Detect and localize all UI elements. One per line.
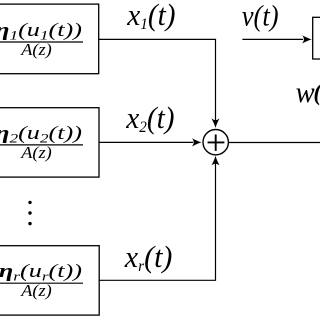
block G2 (eta_2/A)	[0, 108, 99, 177]
arrowhead down into summing node top	[211, 118, 219, 128]
svg-text:x2(t): x2(t)	[125, 102, 174, 137]
svg-text:xr(t): xr(t)	[124, 240, 173, 275]
fraction bar block 1	[0, 41, 83, 43]
output wire from summing node to right edge	[229, 142, 320, 144]
vertical ellipsis dots	[28, 201, 31, 204]
svg-text:v(t): v(t)	[242, 0, 279, 33]
value label denominator A(z) block 3	[20, 281, 52, 300]
wire xr: block Gr to summing node (right then up)	[99, 163, 215, 280]
block G1 (eta_1/A)	[0, 4, 99, 74]
node label x_1(t)	[126, 0, 175, 33]
svg-text:A(z): A(z)	[20, 143, 52, 162]
value label numerator eta_2(u_2(t))	[0, 122, 82, 145]
plus sign horizontal	[208, 141, 225, 143]
svg-text:(: (	[313, 80, 320, 106]
arrowhead right into summing node left	[192, 138, 202, 146]
plus sign vertical	[215, 135, 217, 151]
arrowhead up into summing node bottom	[211, 156, 219, 166]
value label numerator eta_r(u_r(t))	[0, 260, 82, 283]
arrowhead right into top-right block	[302, 35, 312, 43]
node label x_r(t)	[124, 240, 173, 275]
svg-text:A(z): A(z)	[20, 40, 52, 59]
wire x1: block G1 to summing node (right then down)	[99, 39, 216, 120]
svg-text:w: w	[296, 76, 315, 109]
wire x2: block G2 to summing node (straight right)	[99, 141, 193, 143]
wire v(t) into top-right block	[242, 38, 303, 40]
svg-text:A(z): A(z)	[20, 281, 52, 300]
block Gr (eta_r/A)	[0, 246, 99, 315]
node label w( (cut off)	[296, 76, 315, 109]
value label denominator A(z) block 1	[20, 40, 52, 59]
value label numerator eta_1(u_1(t))	[0, 19, 82, 42]
node label x_2(t)	[125, 102, 174, 137]
top-right block (cut off)	[313, 17, 320, 59]
svg-text:x1(t): x1(t)	[126, 0, 175, 33]
fraction bar block 3	[0, 282, 83, 284]
summing node circle	[203, 130, 228, 155]
node label v(t)	[242, 0, 279, 33]
value label denominator A(z) block 2	[20, 143, 52, 162]
fraction bar block 2	[0, 144, 83, 146]
